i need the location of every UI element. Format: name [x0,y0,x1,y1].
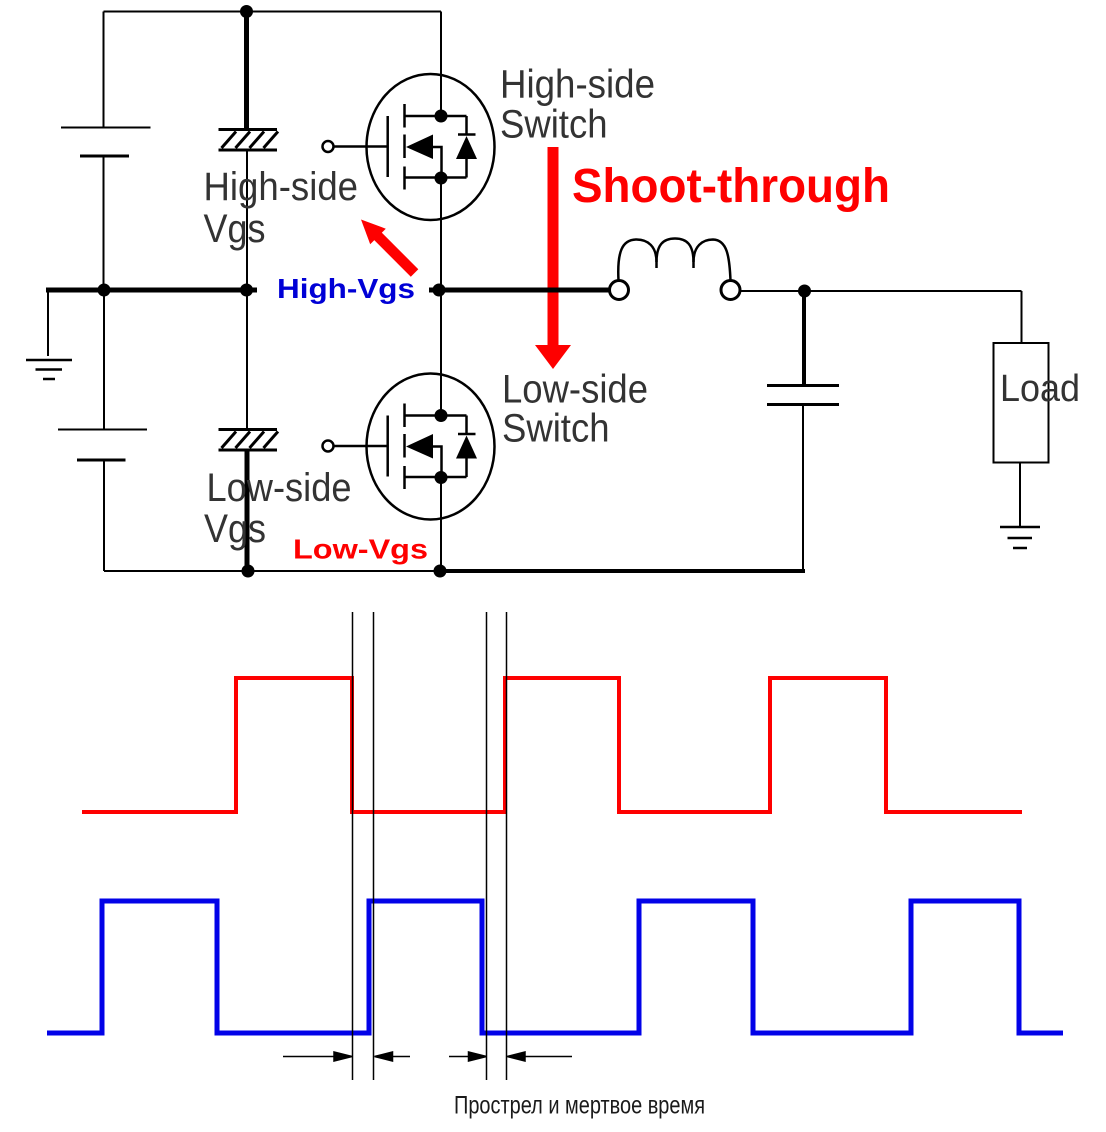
timing reference line 4 [506,612,508,1080]
svg-text:Switch: Switch [502,407,610,451]
wire top rail [104,11,442,13]
node top junction dot [240,5,253,18]
wire capacitor to bottom rail [802,405,804,572]
battery B1 long plate [61,127,151,129]
wire bottom rail thick right [440,569,805,573]
node mid-rail switch dot [433,284,446,297]
waveform red High-side Vgs trace [82,678,1022,812]
capacitor C1 [767,386,839,405]
ground symbol left [26,360,72,379]
svg-text:Low-side: Low-side [207,466,352,510]
wire capacitor stem thick [802,291,806,386]
wire drain lead Q1 [440,12,442,117]
wire battery B2 to bottom rail [103,460,105,571]
svg-text:Low-side: Low-side [502,368,648,412]
wire load to ground [1019,463,1021,528]
inductor L1 [610,239,741,300]
wire mid rail thick right [429,288,612,293]
wire left branch upper (to battery B1) [103,12,105,128]
svg-text:Shoot-through: Shoot-through [572,160,890,213]
dimension arrow dead-time left-in [283,1052,352,1061]
wire inductor to output node [740,290,1022,292]
arrow high-vgs (red diagonal) [361,220,418,277]
wire Vgs branch thin lower [246,150,248,290]
node output junction dot [798,285,811,298]
wire left branch to battery B2 [103,290,105,430]
arrow shoot-through (red vertical) [535,147,571,369]
svg-text:Vgs: Vgs [204,207,266,251]
node mid-rail left dot [98,284,111,297]
wire ground stem left [47,290,49,356]
svg-text:Switch: Switch [500,103,608,147]
wire output to load [1021,291,1023,343]
battery B2 short plate [77,459,126,462]
ground symbol load [1000,527,1040,548]
wire Vgs low branch thick lower [245,450,250,571]
wire Vgs low branch thin upper [246,290,248,430]
wire source lead Q2 [440,478,442,572]
svg-text:High-side: High-side [204,165,359,209]
resistor Load box [994,343,1049,463]
wire source lead Q1 [440,178,442,290]
svg-text:Vgs: Vgs [204,507,266,551]
battery B2 long plate [58,429,147,431]
wire battery B1 to mid rail [103,156,105,290]
hatch symbol high-side (isolated gate drive) [219,130,279,151]
wire mid rail thick left [46,288,257,293]
wire bottom rail thin left [104,570,440,572]
wire drain lead Q2 [440,290,442,416]
svg-text:Load: Load [1000,368,1080,410]
hatch symbol low-side (isolated gate drive) [219,430,279,451]
wire Vgs branch thick upper [244,12,249,130]
dimension arrow dead-time right-in [449,1052,487,1061]
battery B1 short plate [80,155,129,158]
waveform blue Low-side Vgs trace [47,901,1063,1033]
svg-text:High-side: High-side [500,63,655,107]
svg-text:Прострел и мертвое время: Прострел и мертвое время [454,1092,705,1120]
svg-text:Low-Vgs: Low-Vgs [293,534,428,565]
node bottom rail Vgs dot [242,565,255,578]
timing reference line 3 [486,612,488,1080]
transistor Q1 high-side MOSFET [323,12,495,291]
timing reference line 2 [373,612,375,1080]
dimension arrow dead-time right-out [507,1052,572,1061]
timing reference line 1 [352,612,354,1080]
dimension arrow dead-time left-out [375,1052,411,1061]
wire mid rail crossing over arrow [530,288,580,293]
svg-text:High-Vgs: High-Vgs [277,273,415,304]
node mid-rail Vgs dot [240,284,253,297]
node bottom rail switch dot [434,565,447,578]
transistor Q2 low-side MOSFET [323,290,495,571]
